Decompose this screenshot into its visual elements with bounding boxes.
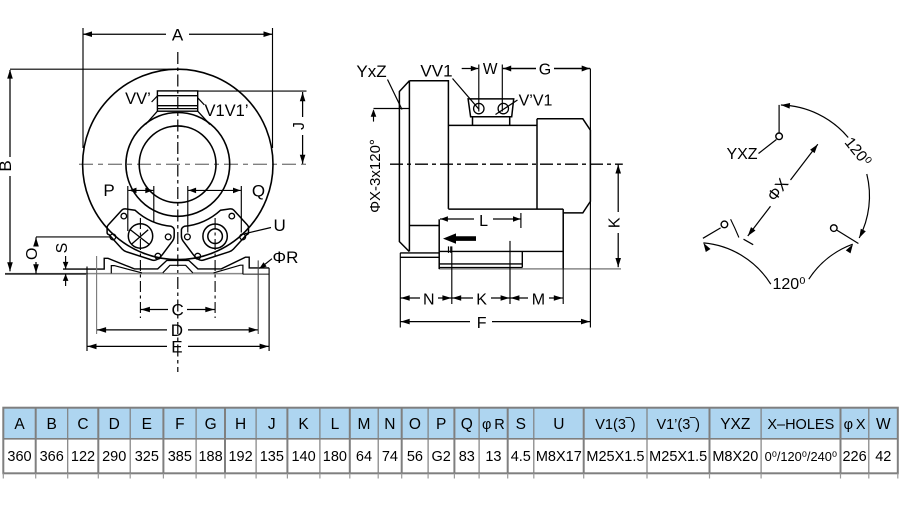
- right flange bolt hole bottom: [195, 253, 201, 259]
- side view muffler trapezoid: [468, 99, 514, 126]
- table value row text: [7, 449, 891, 465]
- dimension W line: [462, 65, 503, 112]
- right flange bolt hole left: [185, 234, 191, 240]
- svg-text:W: W: [876, 416, 891, 433]
- svg-text:A: A: [14, 416, 25, 433]
- svg-text:A: A: [172, 26, 184, 45]
- svg-text:U: U: [274, 216, 286, 235]
- label V'V1 with leader: [496, 93, 553, 115]
- dimension C line: [140, 307, 214, 313]
- left flange bolt hole left: [110, 234, 116, 240]
- flange view top bolt hole: [776, 133, 783, 140]
- dimension B line: [5, 69, 176, 274]
- side view ground line: [439, 268, 621, 270]
- side view drain ticks: [449, 246, 451, 253]
- svg-text:P: P: [103, 181, 114, 200]
- svg-text:180: 180: [323, 449, 347, 465]
- svg-text:0⁰/120⁰/240⁰: 0⁰/120⁰/240⁰: [765, 449, 837, 464]
- dimension K right line: [615, 164, 621, 267]
- svg-text:L: L: [479, 213, 488, 230]
- side view motor: [537, 119, 590, 213]
- svg-text:226: 226: [842, 449, 866, 465]
- svg-text:O: O: [409, 416, 421, 433]
- front view vertical center line: [177, 52, 179, 372]
- svg-text:366: 366: [40, 449, 64, 465]
- table header row text: [14, 416, 891, 433]
- svg-text:L: L: [331, 416, 340, 433]
- flange view top radial extension: [778, 105, 780, 133]
- svg-text:360: 360: [7, 449, 31, 465]
- label U with leader: [245, 216, 286, 235]
- side view port circle V'V1: [498, 103, 508, 113]
- flange view 120deg arc bottom: [703, 243, 853, 284]
- left port center line: [139, 218, 141, 318]
- dimension D line: [97, 256, 259, 334]
- svg-text:140: 140: [291, 449, 315, 465]
- flange view lower-right bolt hole: [831, 225, 838, 232]
- svg-text:74: 74: [382, 449, 398, 465]
- flow direction arrow: [443, 233, 476, 243]
- svg-text:Q: Q: [252, 182, 265, 201]
- svg-text:O: O: [24, 248, 41, 260]
- label V1V1' with leader: [198, 98, 249, 120]
- svg-text:M25X1.5: M25X1.5: [649, 449, 707, 465]
- front view top port block VV/V1V1: [146, 91, 210, 125]
- svg-text:135: 135: [260, 449, 284, 465]
- dimension F line: [400, 69, 590, 328]
- dimension S arrows: [63, 256, 69, 286]
- svg-text:122: 122: [71, 449, 95, 465]
- svg-text:YXZ: YXZ: [726, 146, 757, 163]
- svg-text:C: C: [171, 301, 183, 320]
- dimension A line: [83, 28, 273, 148]
- svg-text:Q: Q: [461, 416, 473, 433]
- svg-text:B: B: [47, 416, 57, 433]
- front view horizontal center line: [79, 163, 307, 165]
- side view port circle VV1: [474, 103, 484, 113]
- flange view 120deg arc right: [781, 103, 870, 238]
- svg-text:ΦX-3x120°: ΦX-3x120°: [367, 139, 384, 213]
- svg-text:D: D: [109, 416, 120, 433]
- svg-text:ΦR: ΦR: [273, 248, 299, 267]
- left flange bolt hole top: [121, 213, 127, 219]
- right port center line: [214, 218, 216, 318]
- side view cover plate: [399, 81, 409, 252]
- label VV1 with leader: [420, 62, 479, 110]
- svg-text:U: U: [553, 416, 564, 433]
- svg-text:W: W: [483, 61, 498, 78]
- svg-text:325: 325: [135, 449, 159, 465]
- svg-text:VV1: VV1: [420, 62, 452, 81]
- front view base plate inner profile: [111, 265, 243, 274]
- svg-text:J: J: [291, 122, 308, 130]
- svg-text:φ R: φ R: [482, 417, 505, 433]
- svg-text:K: K: [476, 292, 487, 309]
- svg-text:192: 192: [228, 449, 252, 465]
- svg-text:4.5: 4.5: [511, 449, 531, 465]
- svg-text:YxZ: YxZ: [356, 62, 386, 81]
- dimension Q port line: [188, 186, 242, 233]
- dimension P port bore line: [128, 186, 154, 231]
- flange view lower-left radial extension: [703, 228, 721, 238]
- svg-text:42: 42: [875, 449, 891, 465]
- front view base plate lower line: [5, 273, 243, 275]
- dimension L line: [440, 213, 521, 228]
- svg-text:64: 64: [356, 449, 372, 465]
- right port bore circle: [208, 229, 223, 244]
- dimension PhiX diagonal: [744, 144, 818, 245]
- dimension table: [3, 408, 898, 439]
- svg-text:F: F: [175, 416, 184, 433]
- svg-text:P: P: [436, 416, 446, 433]
- svg-text:G: G: [539, 62, 551, 79]
- svg-text:13: 13: [485, 449, 501, 465]
- svg-text:385: 385: [168, 449, 192, 465]
- dimension J line: [198, 91, 307, 164]
- side view housing bottom flange: [400, 253, 439, 257]
- svg-text:V1(3‾): V1(3‾): [595, 417, 635, 433]
- svg-text:X–HOLES: X–HOLES: [767, 417, 834, 433]
- svg-text:V1’(3‾): V1’(3‾): [656, 417, 700, 433]
- left flange bolt hole bottom: [155, 253, 161, 259]
- front view inlet outer circle: [126, 112, 230, 216]
- svg-text:V1V1’: V1V1’: [205, 102, 249, 120]
- left port plugged circle with X: [128, 224, 152, 248]
- front view base plate low flat gray segments: [142, 272, 163, 274]
- right flange bolt hole right: [240, 234, 246, 240]
- label YXZ with leader: [726, 140, 776, 164]
- side view center line: [390, 163, 623, 165]
- front view base plate upper profile: [63, 257, 269, 269]
- table lower row stubs: [3, 473, 898, 478]
- svg-text:S: S: [54, 243, 71, 254]
- svg-text:V’V1: V’V1: [519, 93, 553, 110]
- dimension E line: [87, 267, 269, 352]
- svg-text:S: S: [516, 416, 526, 433]
- flange view lower-left bolt hole: [721, 221, 728, 228]
- svg-text:H: H: [235, 416, 246, 433]
- svg-text:188: 188: [198, 449, 222, 465]
- svg-text:83: 83: [459, 449, 475, 465]
- side view bracket top edge: [448, 124, 537, 126]
- label VV' with leader: [125, 90, 157, 108]
- svg-text:E: E: [142, 416, 152, 433]
- front view left flange plate P: [107, 209, 174, 260]
- front view housing outer circle: [83, 69, 273, 259]
- svg-text:120⁰: 120⁰: [772, 276, 805, 293]
- svg-text:E: E: [171, 338, 182, 357]
- side view lower box: [409, 209, 563, 269]
- svg-text:M: M: [532, 292, 545, 309]
- dimension O line: [33, 237, 111, 274]
- front view right flange plate Q: [181, 209, 248, 260]
- svg-text:290: 290: [102, 449, 126, 465]
- svg-text:M8X17: M8X17: [536, 449, 582, 465]
- front view inlet bore circle: [139, 126, 216, 203]
- svg-text:K: K: [607, 217, 624, 228]
- svg-text:G: G: [205, 416, 217, 433]
- svg-text:B: B: [0, 160, 15, 171]
- svg-text:M8X20: M8X20: [712, 449, 758, 465]
- side view housing disk: [409, 81, 448, 209]
- flange view bolt circle tick arc: [731, 219, 739, 237]
- svg-text:N: N: [423, 292, 435, 309]
- dimension G line: [503, 66, 590, 72]
- dimension N K M chain: [400, 213, 563, 328]
- svg-text:C: C: [77, 416, 88, 433]
- svg-text:VV’: VV’: [125, 90, 151, 108]
- svg-text:K: K: [298, 416, 309, 433]
- label PhiR with leader: [259, 248, 298, 269]
- svg-text:G2: G2: [432, 449, 451, 465]
- left flange bolt hole right: [165, 234, 171, 240]
- svg-text:56: 56: [407, 449, 423, 465]
- label PhiX-3x120 with arrow: [367, 109, 409, 213]
- label YxZ with leader: [356, 62, 402, 110]
- svg-text:N: N: [384, 416, 395, 433]
- svg-text:M25X1.5: M25X1.5: [586, 449, 644, 465]
- svg-text:M: M: [358, 416, 371, 433]
- flange view lower-right radial extension: [837, 230, 858, 243]
- right flange bolt hole top: [229, 213, 235, 219]
- svg-text:YXZ: YXZ: [720, 416, 750, 433]
- svg-text:J: J: [268, 416, 276, 433]
- right port outer circle: [203, 224, 227, 248]
- svg-text:φ X: φ X: [844, 417, 866, 433]
- svg-text:F: F: [477, 315, 487, 332]
